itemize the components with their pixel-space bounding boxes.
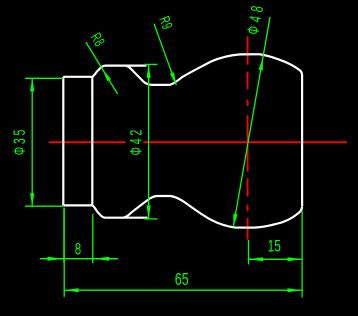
part outline: top edge of phi35 cylinder xyxy=(63,76,92,78)
dimension 15: right arrowhead xyxy=(288,257,303,261)
centerline horizontal (red) xyxy=(49,141,347,143)
dimension 8: left extension line xyxy=(63,209,65,264)
dimension phi42: dimension line xyxy=(148,64,150,219)
dimension 8: left arrowhead xyxy=(47,257,64,261)
part outline: bottom land of phi42 hump xyxy=(92,205,147,217)
svg-text:8: 8 xyxy=(75,240,81,259)
dimension phi42: bottom arrowhead xyxy=(147,205,151,218)
dimension phi48: leader line xyxy=(233,17,270,227)
svg-text:65: 65 xyxy=(175,270,189,290)
dimension 15: dimension line xyxy=(249,258,303,260)
dimension 8: dimension line xyxy=(40,258,118,260)
dimension 8: right arrowhead xyxy=(93,257,110,261)
part outline: step line at end of phi35 cylinder xyxy=(91,77,93,206)
svg-text:Φ42: Φ42 xyxy=(126,127,145,155)
dimension phi42: top arrowhead xyxy=(147,65,151,78)
dimension 15: left arrowhead xyxy=(249,257,264,261)
part outline: bottom edge of phi35 cylinder xyxy=(63,204,92,206)
dimension phi35: dimension line xyxy=(31,78,33,206)
dimension R9: leader line xyxy=(154,24,176,85)
dimension 65: left arrowhead xyxy=(64,288,79,292)
dimension 65: right extension line (shared with 15) xyxy=(301,211,303,298)
dimension phi48: lower arrowhead xyxy=(233,214,237,227)
svg-text:15: 15 xyxy=(268,237,281,256)
part outline: bottom descent edge, valley bump, phi48 arc bottom, corner xyxy=(123,196,302,228)
dimension phi35: top extension line xyxy=(25,77,63,79)
svg-text:Φ35: Φ35 xyxy=(9,127,28,155)
dimension R9: arrowhead xyxy=(170,72,176,85)
dimension phi35: bottom arrowhead xyxy=(30,193,34,206)
dimension 15: left extension line xyxy=(248,240,250,265)
dimension R8: leader line xyxy=(86,42,118,94)
part outline: top land of phi42 hump xyxy=(92,66,146,77)
dimension 8: right extension line xyxy=(92,214,94,263)
dimension phi42: bottom extension bar xyxy=(145,218,158,220)
text mask under phi42 label xyxy=(126,136,144,149)
centerline vertical (red, dash-dot) xyxy=(247,36,249,239)
dimension phi35: bottom extension line xyxy=(25,205,63,207)
dimension phi42: top extension bar xyxy=(145,63,158,65)
dimension phi48: upper arrowhead xyxy=(259,57,263,70)
dimension 65: dimension line xyxy=(64,289,302,291)
part outline: top descent edge, R9 valley, phi48 arc, right corner, right face xyxy=(126,54,302,206)
part outline: left end face xyxy=(62,77,64,206)
dimension 65: left extension line xyxy=(63,208,65,297)
dimension phi35: top arrowhead xyxy=(30,78,34,91)
dimension 65: right arrowhead xyxy=(288,288,303,292)
dimension R8: arrowhead xyxy=(102,69,111,81)
